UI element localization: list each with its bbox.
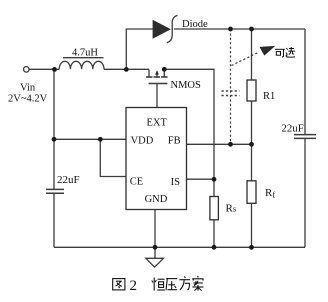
- svg-text:Diode: Diode: [182, 19, 208, 30]
- svg-text:4.7uH: 4.7uH: [72, 48, 98, 59]
- svg-text:R1: R1: [263, 91, 275, 102]
- svg-text:IS: IS: [171, 177, 180, 188]
- svg-text:GND: GND: [145, 194, 168, 205]
- svg-text:Rs: Rs: [226, 203, 237, 215]
- svg-text:Vin: Vin: [20, 83, 36, 94]
- svg-text:2V~4.2V: 2V~4.2V: [8, 94, 48, 105]
- svg-text:CE: CE: [130, 177, 143, 188]
- svg-text:FB: FB: [168, 135, 181, 146]
- svg-text:EXT: EXT: [147, 118, 168, 129]
- svg-text:NMOS: NMOS: [171, 80, 202, 91]
- svg-text:22uF: 22uF: [282, 122, 304, 134]
- svg-text:VDD: VDD: [131, 135, 154, 146]
- svg-text:22uF: 22uF: [57, 174, 80, 186]
- svg-text:Rf: Rf: [265, 187, 275, 200]
- svg-text:2: 2: [130, 278, 138, 294]
